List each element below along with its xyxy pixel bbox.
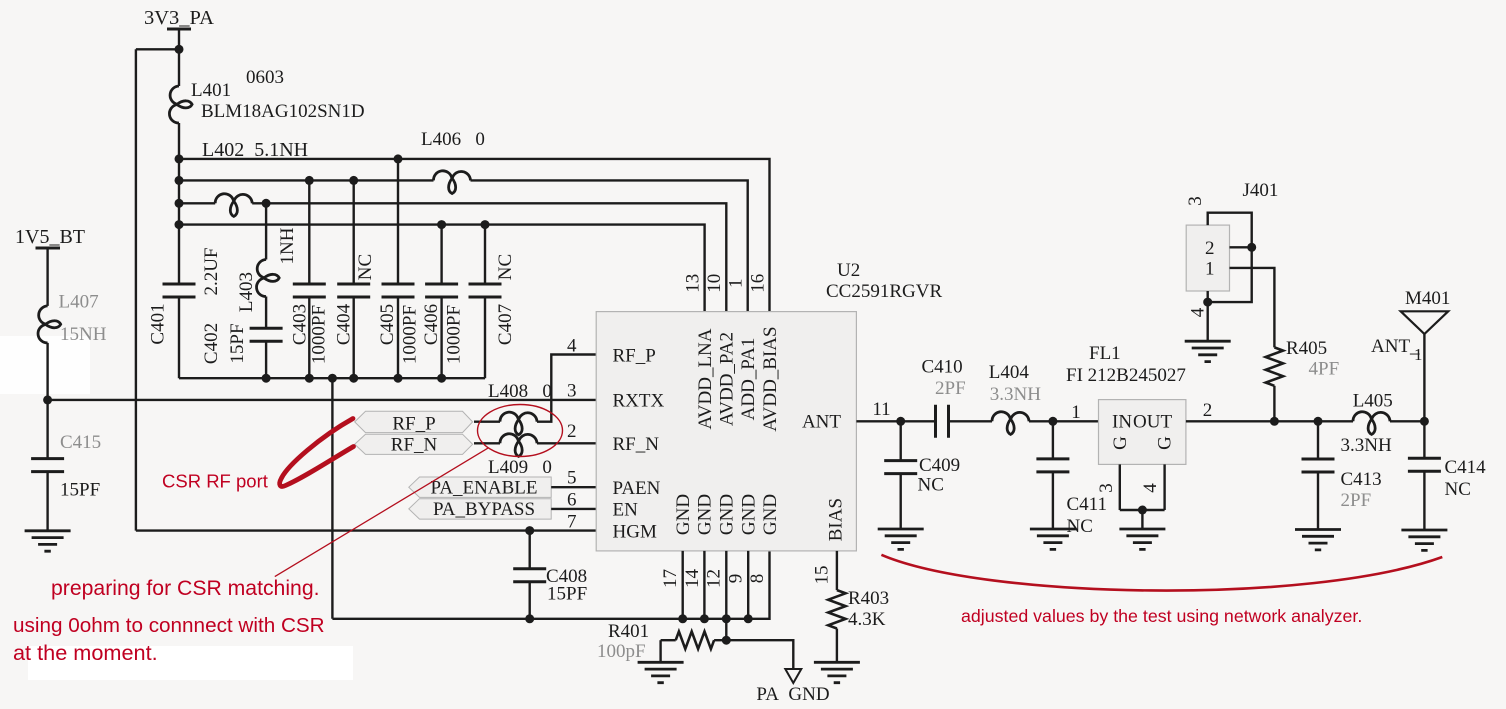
net flag RF_P <box>355 411 473 432</box>
svg-text:at the moment.: at the moment. <box>13 640 158 665</box>
svg-text:R403: R403 <box>848 588 889 609</box>
svg-text:3.3NH: 3.3NH <box>1341 435 1392 456</box>
wire ground rail to pin 8 <box>332 551 769 619</box>
svg-text:2: 2 <box>567 421 577 442</box>
svg-text:C410: C410 <box>922 357 963 378</box>
node GND rail x726 <box>722 614 731 623</box>
svg-text:RF_P: RF_P <box>392 414 435 435</box>
svg-text:C403: C403 <box>289 304 310 345</box>
svg-text:HGM: HGM <box>613 521 657 542</box>
ground C413 <box>1295 530 1341 550</box>
svg-text:EN: EN <box>613 500 639 521</box>
svg-text:C402: C402 <box>201 323 222 364</box>
annotation arrow to RF_P RF_N <box>280 419 354 487</box>
inductor L408 <box>500 412 537 435</box>
wire R401 right lead <box>714 639 726 641</box>
ground FL1 <box>1119 529 1165 549</box>
wire L409 to pin 2 <box>537 442 596 444</box>
capacitor C407 <box>469 284 502 297</box>
svg-text:G: G <box>1155 436 1176 450</box>
svg-text:4.3K: 4.3K <box>848 609 886 630</box>
svg-text:C406: C406 <box>421 304 442 345</box>
svg-text:L405: L405 <box>1353 391 1393 412</box>
wire pin 12 GND <box>725 551 727 640</box>
capacitor C408 <box>513 569 546 582</box>
wire RXTX net <box>48 399 597 401</box>
svg-text:3.3NH: 3.3NH <box>990 384 1041 405</box>
svg-text:3: 3 <box>1096 483 1117 493</box>
wire pin 14 GND <box>703 551 705 619</box>
svg-text:CC2591RGVR: CC2591RGVR <box>826 281 942 302</box>
svg-text:PA GND: PA GND <box>756 684 829 704</box>
svg-text:10: 10 <box>704 274 725 293</box>
svg-text:L408 0: L408 0 <box>488 381 552 402</box>
svg-text:C414: C414 <box>1445 457 1487 478</box>
port PA GND arrow <box>785 669 801 683</box>
node FL1 G junction <box>1138 506 1147 515</box>
annotation brace arc <box>881 555 1442 591</box>
wire C410 to L404 <box>949 420 993 422</box>
wire C404 bottom lead <box>353 297 355 378</box>
svg-text:FI 212B245027: FI 212B245027 <box>1066 365 1186 386</box>
wire L405 to antenna <box>1390 420 1424 422</box>
ground R401 <box>638 662 684 682</box>
white background patch bottom-left <box>28 646 353 680</box>
svg-text:RXTX: RXTX <box>613 391 665 412</box>
capacitor C413 <box>1302 459 1335 472</box>
svg-text:4: 4 <box>567 336 577 357</box>
white background patch left edge <box>0 336 90 394</box>
wire C405 top lead <box>397 159 399 284</box>
wire R403 to ground <box>836 629 838 663</box>
wire FL1 G to ground <box>1141 510 1143 529</box>
capacitor C415 <box>31 459 64 472</box>
svg-text:9: 9 <box>725 574 746 584</box>
svg-text:ANT: ANT <box>802 412 841 433</box>
svg-text:2.2UF: 2.2UF <box>201 247 222 295</box>
svg-text:2: 2 <box>1203 400 1213 421</box>
ground C409 <box>878 529 924 549</box>
wire cap bank bottom bus <box>179 377 485 379</box>
inductor L401 (ferrite bead) <box>169 86 192 123</box>
svg-text:4PF: 4PF <box>1309 359 1340 380</box>
capacitor C409 <box>884 461 917 474</box>
inductor L405 <box>1353 412 1390 435</box>
svg-text:GND: GND <box>695 494 716 535</box>
node antenna junction <box>1420 417 1429 426</box>
svg-text:C404: C404 <box>334 303 355 345</box>
wire C413 to ground <box>1317 472 1319 530</box>
svg-text:NC: NC <box>355 254 376 280</box>
node 1V5 RXTX junction <box>43 395 52 404</box>
svg-text:J401: J401 <box>1243 180 1279 201</box>
svg-text:17: 17 <box>660 569 681 588</box>
wire pin 9 GND <box>747 551 749 619</box>
capacitor C401 <box>163 284 196 297</box>
svg-text:15PF: 15PF <box>547 584 587 605</box>
ground C415 <box>25 531 71 551</box>
svg-text:5: 5 <box>567 468 577 489</box>
svg-text:C405: C405 <box>377 304 398 345</box>
node J401 pin2 junction <box>1247 243 1256 252</box>
svg-text:L401: L401 <box>191 80 231 101</box>
svg-text:1: 1 <box>1205 259 1215 280</box>
wire FL1 G join <box>1120 509 1165 511</box>
svg-text:IN: IN <box>1112 412 1132 433</box>
wire C401 bottom lead <box>178 297 180 378</box>
node row2 left <box>175 176 184 185</box>
wire ANT to C410 <box>856 420 935 422</box>
svg-text:GND: GND <box>739 494 760 535</box>
op-amp U2 CC2591RGVR body <box>596 312 856 551</box>
wire J401 pin 3 loop <box>1208 213 1252 302</box>
net flag PA_BYPASS <box>409 499 551 519</box>
wire FL1 out <box>1186 420 1353 422</box>
wire pin 17 GND <box>682 551 684 619</box>
node bus x353 <box>349 374 358 383</box>
wire C403 bottom lead <box>308 297 310 378</box>
svg-text:CSR RF port: CSR RF port <box>162 471 268 492</box>
wire L408 to pin 4 <box>537 355 596 422</box>
wire C415 to ground <box>46 472 48 531</box>
svg-text:BLM18AG102SN1D: BLM18AG102SN1D <box>201 101 365 122</box>
svg-text:NC: NC <box>918 475 944 496</box>
filter FL1 body <box>1099 400 1186 465</box>
wire 3V3_PA to L401 <box>178 30 180 86</box>
wire C407 top lead <box>484 225 486 284</box>
wire J401 pin 2 <box>1230 246 1252 248</box>
node ground rail C408 <box>525 614 534 623</box>
node row4 left <box>175 220 184 229</box>
capacitor C403 <box>293 284 326 297</box>
wire C407 bottom lead <box>484 297 486 378</box>
svg-text:R401: R401 <box>608 621 649 642</box>
svg-text:adjusted values by the test us: adjusted values by the test using networ… <box>961 606 1362 626</box>
power bar 3V3_PA <box>167 28 191 31</box>
svg-text:2PF: 2PF <box>1341 490 1372 511</box>
svg-text:ADD_PA1: ADD_PA1 <box>738 338 759 421</box>
node bus x309 <box>305 374 314 383</box>
wire HGM net horizontal <box>136 529 596 531</box>
svg-text:PA_ENABLE: PA_ENABLE <box>431 478 538 499</box>
svg-text:1: 1 <box>1414 345 1423 364</box>
svg-text:G: G <box>1110 436 1131 450</box>
svg-text:NC: NC <box>1445 479 1471 500</box>
node J401 pin4 junction <box>1203 298 1212 307</box>
node ANT C409 junction <box>896 417 905 426</box>
wire 3V3 left vertical down to HGM <box>135 49 137 530</box>
svg-text:15PF: 15PF <box>227 323 248 363</box>
svg-text:C409: C409 <box>919 455 960 476</box>
annotation leader line <box>275 448 488 576</box>
inductor L409 <box>500 434 537 457</box>
capacitor C410 <box>936 405 949 438</box>
wire RF_N to L409 <box>474 442 500 444</box>
wire C405 bottom lead <box>397 297 399 378</box>
wire J401 pin 4 to ground <box>1206 291 1208 341</box>
wire row2 left segment <box>179 179 434 181</box>
svg-text:PAEN: PAEN <box>613 478 661 499</box>
node row1 C405 <box>394 154 403 163</box>
svg-text:M401: M401 <box>1405 288 1450 309</box>
svg-text:11: 11 <box>872 399 890 420</box>
svg-text:2: 2 <box>1205 238 1215 259</box>
annotation ellipse around L408 L409 <box>478 405 563 457</box>
node HGM C408 junction <box>525 526 534 535</box>
svg-text:RF_P: RF_P <box>613 345 656 366</box>
capacitor C406 <box>425 284 458 297</box>
capacitor C404 <box>337 284 370 297</box>
ground R403 <box>814 662 860 682</box>
svg-text:L404: L404 <box>989 362 1030 383</box>
wire C403 top lead <box>308 180 310 284</box>
svg-text:GND: GND <box>673 494 694 535</box>
node GND rail x704 <box>700 614 709 623</box>
svg-text:FL1: FL1 <box>1089 343 1121 364</box>
wire FL1 G pin 3 <box>1119 464 1121 510</box>
svg-text:2PF: 2PF <box>935 378 966 399</box>
svg-text:C407: C407 <box>495 304 516 345</box>
wire C402 bottom lead <box>265 341 267 378</box>
wire PA_BYPASS to pin 6 <box>551 508 596 510</box>
svg-text:R405: R405 <box>1286 338 1327 359</box>
node bus x441 <box>437 374 446 383</box>
svg-text:L407: L407 <box>59 292 99 313</box>
svg-text:BIAS: BIAS <box>825 498 846 541</box>
wire C414 top lead <box>1423 421 1425 458</box>
node row2 C404 <box>349 176 358 185</box>
power bar 1V5_BT <box>36 247 61 250</box>
svg-text:1000PF: 1000PF <box>400 305 421 364</box>
net flag RF_N <box>355 434 473 454</box>
svg-text:15: 15 <box>812 566 833 585</box>
svg-text:AVDD_PA2: AVDD_PA2 <box>717 332 738 426</box>
node GND rail x748 <box>744 614 753 623</box>
capacitor C402 <box>250 328 283 341</box>
wire R401 left lead <box>661 639 676 641</box>
svg-text:NC: NC <box>495 254 516 280</box>
svg-text:L406 0: L406 0 <box>421 129 485 150</box>
wire RF_P to L408 <box>474 421 500 423</box>
node 3V3_PA junction <box>175 45 184 54</box>
ground C411 <box>1030 529 1076 549</box>
ground J401 <box>1185 341 1231 361</box>
svg-text:1: 1 <box>1071 402 1081 423</box>
svg-text:3: 3 <box>1185 196 1206 206</box>
ground C414 <box>1401 530 1447 550</box>
svg-text:3: 3 <box>567 381 577 402</box>
svg-text:4: 4 <box>1140 483 1161 493</box>
svg-text:L409 0: L409 0 <box>488 457 552 478</box>
capacitor C405 <box>382 284 415 297</box>
connector J401 body <box>1186 225 1229 291</box>
node bus x266 <box>262 374 271 383</box>
node row1 left <box>175 154 184 163</box>
svg-text:RF_N: RF_N <box>391 435 438 456</box>
capacitor C414 <box>1408 458 1441 471</box>
svg-text:NC: NC <box>1067 516 1093 537</box>
node C411 junction <box>1048 417 1057 426</box>
wire C409 top lead <box>900 421 902 460</box>
node row4 C406 <box>437 220 446 229</box>
wire C409 to ground <box>900 474 902 529</box>
svg-text:AVDD_LNA: AVDD_LNA <box>695 328 716 429</box>
svg-text:100pF: 100pF <box>597 641 646 662</box>
svg-text:0603: 0603 <box>246 67 284 88</box>
wire HGM to C408 <box>529 531 531 569</box>
resistor R403 <box>828 590 845 628</box>
node R405 junction <box>1270 417 1279 426</box>
wire L403 to C402 <box>265 297 267 329</box>
svg-text:13: 13 <box>682 274 703 293</box>
svg-text:C401: C401 <box>147 303 168 344</box>
wire R401 to ground <box>659 640 661 662</box>
wire L401 to cap bank <box>178 123 180 284</box>
svg-text:1V5_BT: 1V5_BT <box>15 226 85 248</box>
svg-text:C413: C413 <box>1341 469 1382 490</box>
wire row2 to pin 1 <box>471 180 748 311</box>
svg-text:L403: L403 <box>236 272 257 312</box>
inductor L403 <box>257 260 280 297</box>
svg-text:15NH: 15NH <box>60 324 107 345</box>
node bus x332 <box>328 374 337 383</box>
svg-text:RF_N: RF_N <box>613 434 660 455</box>
wire row3 to L403 <box>265 203 267 259</box>
node row3 L403 branch <box>262 199 271 208</box>
svg-text:14: 14 <box>682 569 703 589</box>
wire C411 top lead <box>1052 421 1054 459</box>
node C413 junction <box>1314 417 1323 426</box>
svg-text:OUT: OUT <box>1133 412 1172 433</box>
wire C414 to ground <box>1423 471 1425 530</box>
inductor L404 <box>992 412 1029 435</box>
svg-text:ANT_: ANT_ <box>1371 336 1420 357</box>
svg-text:6: 6 <box>567 490 577 511</box>
svg-text:12: 12 <box>703 569 724 588</box>
svg-text:16: 16 <box>747 274 768 293</box>
wire to PA GND port <box>726 640 793 669</box>
wire row4 to pin 13 <box>179 225 705 312</box>
node row2 C403 <box>305 176 314 185</box>
wire L404 to FL1 <box>1029 420 1099 422</box>
node GND rail x682 <box>678 614 687 623</box>
svg-text:1NH: 1NH <box>277 227 298 264</box>
svg-text:PA_BYPASS: PA_BYPASS <box>433 499 535 520</box>
svg-text:15PF: 15PF <box>60 480 100 501</box>
svg-text:preparing for CSR matching.: preparing for CSR matching. <box>51 577 320 600</box>
svg-text:GND: GND <box>717 494 738 535</box>
node row4 C407 <box>481 220 490 229</box>
wire R405 to RF line <box>1273 386 1275 422</box>
wire BIAS pin 15 <box>836 551 838 590</box>
svg-text:U2: U2 <box>837 260 860 281</box>
antenna M401 <box>1401 311 1449 334</box>
wire row3 to pin 10 <box>252 203 726 311</box>
wire J401 pin 1 to R405 <box>1230 268 1275 348</box>
svg-text:1: 1 <box>726 279 747 289</box>
wire PA_ENABLE to pin 5 <box>551 486 596 488</box>
svg-text:C415: C415 <box>60 432 101 453</box>
wire row3 left segment <box>179 202 215 204</box>
wire C406 bottom lead <box>440 297 442 378</box>
svg-text:AVDD_BIAS: AVDD_BIAS <box>760 326 781 431</box>
svg-text:1000PF: 1000PF <box>309 305 330 364</box>
svg-text:C411: C411 <box>1067 494 1107 515</box>
wire 3V3 branch left <box>136 48 179 50</box>
wire C404 top lead <box>353 180 355 284</box>
wire FL1 G pin 4 <box>1163 464 1165 510</box>
inductor L402 <box>215 194 252 217</box>
svg-text:8: 8 <box>747 574 768 584</box>
svg-text:using 0ohm to connnect with CS: using 0ohm to connnect with CSR <box>13 614 325 637</box>
wire row1 AVDD_BIAS to pin 16 <box>179 159 770 312</box>
node row3 left <box>175 199 184 208</box>
node bus x398 <box>394 374 403 383</box>
svg-text:GND: GND <box>760 494 781 535</box>
resistor R405 <box>1266 347 1283 385</box>
inductor L407 <box>38 306 61 343</box>
wire antenna lead <box>1423 334 1425 421</box>
svg-text:4: 4 <box>1187 307 1208 317</box>
svg-text:1000PF: 1000PF <box>444 305 465 364</box>
wire C413 top lead <box>1317 421 1319 459</box>
wire C411 to ground <box>1052 472 1054 529</box>
inductor L406 <box>433 171 470 194</box>
wire 1V5_BT to L407 <box>46 248 48 306</box>
net flag PA_ENABLE <box>409 477 551 497</box>
svg-text:7: 7 <box>567 512 577 533</box>
wire C408 to ground rail <box>529 582 531 619</box>
svg-text:3V3_PA: 3V3_PA <box>144 7 214 29</box>
resistor R401 <box>676 632 714 649</box>
capacitor C411 <box>1036 459 1069 472</box>
node R401 PA_GND junction <box>722 636 731 645</box>
wire bus drop to ground rail <box>331 378 333 619</box>
wire L407 to C415 <box>46 343 48 459</box>
wire C406 top lead <box>440 225 442 284</box>
